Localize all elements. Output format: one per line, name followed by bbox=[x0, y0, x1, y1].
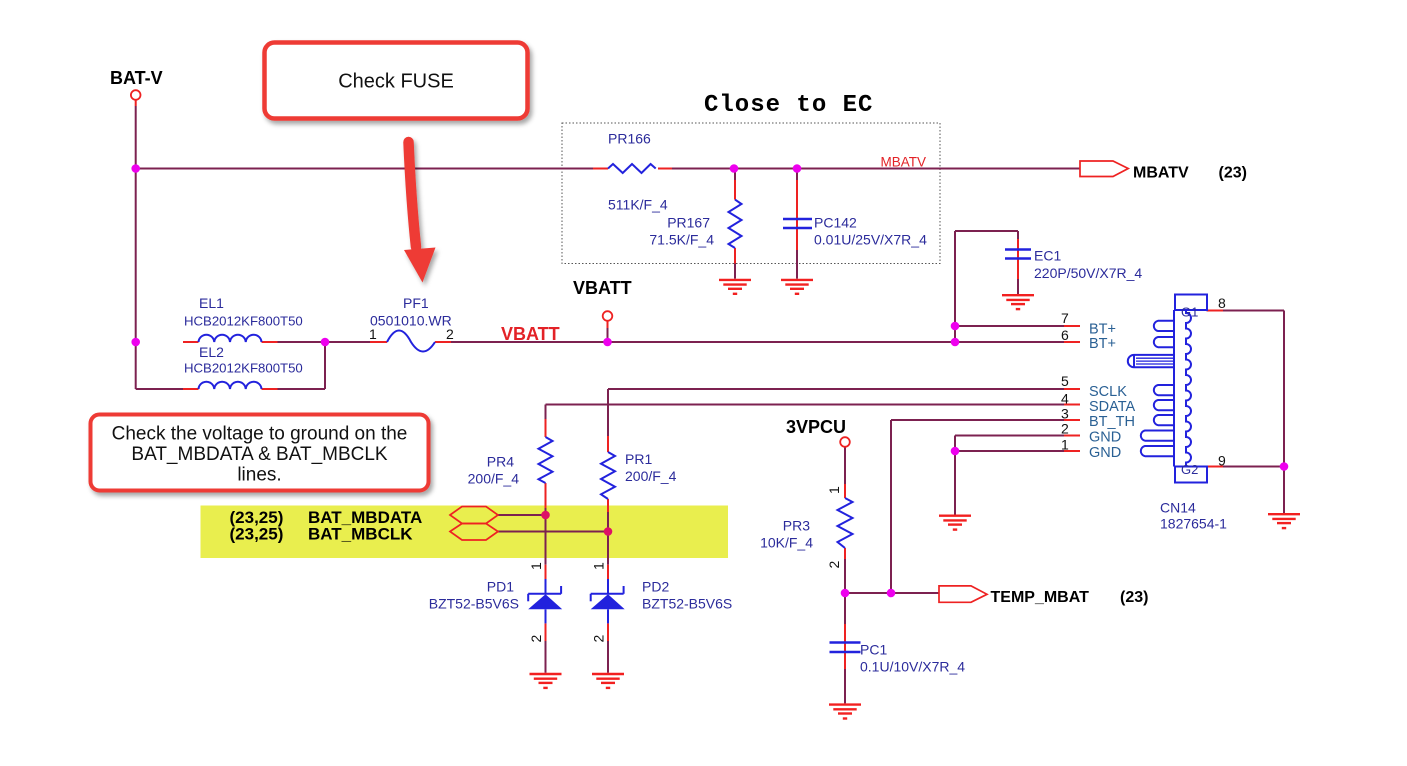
svg-text:2: 2 bbox=[528, 635, 544, 643]
svg-text:71.5K/F_4: 71.5K/F_4 bbox=[649, 232, 714, 248]
svg-text:BAT_MBCLK: BAT_MBCLK bbox=[308, 525, 413, 544]
svg-text:G1: G1 bbox=[1181, 305, 1198, 320]
svg-text:PR4: PR4 bbox=[487, 454, 514, 470]
svg-text:BT_TH: BT_TH bbox=[1089, 414, 1135, 430]
svg-text:BAT-V: BAT-V bbox=[110, 68, 163, 88]
svg-text:(23): (23) bbox=[1219, 165, 1247, 182]
svg-text:EC1: EC1 bbox=[1034, 248, 1061, 264]
svg-text:2: 2 bbox=[826, 561, 842, 569]
svg-text:200/F_4: 200/F_4 bbox=[625, 468, 677, 484]
svg-text:lines.: lines. bbox=[237, 465, 281, 486]
svg-text:Close to EC: Close to EC bbox=[704, 92, 873, 119]
svg-text:BZT52-B5V6S: BZT52-B5V6S bbox=[429, 596, 519, 612]
svg-text:MBATV: MBATV bbox=[881, 155, 927, 170]
svg-text:220P/50V/X7R_4: 220P/50V/X7R_4 bbox=[1034, 265, 1142, 281]
svg-text:9: 9 bbox=[1218, 453, 1226, 469]
svg-text:CN14: CN14 bbox=[1160, 500, 1196, 516]
svg-text:1: 1 bbox=[591, 562, 607, 570]
svg-text:1: 1 bbox=[369, 326, 377, 342]
svg-text:BZT52-B5V6S: BZT52-B5V6S bbox=[642, 596, 732, 612]
svg-text:PR1: PR1 bbox=[625, 451, 652, 467]
svg-text:G2: G2 bbox=[1181, 462, 1198, 477]
svg-text:PC142: PC142 bbox=[814, 215, 857, 231]
svg-text:(23): (23) bbox=[1120, 589, 1148, 606]
svg-text:SCLK: SCLK bbox=[1089, 384, 1127, 400]
svg-text:BAT_MBDATA & BAT_MBCLK: BAT_MBDATA & BAT_MBCLK bbox=[131, 444, 388, 465]
svg-text:HCB2012KF800T50: HCB2012KF800T50 bbox=[184, 361, 303, 376]
svg-text:2: 2 bbox=[1061, 421, 1069, 437]
svg-text:PD1: PD1 bbox=[487, 579, 514, 595]
svg-text:EL1: EL1 bbox=[199, 295, 224, 311]
svg-text:Check FUSE: Check FUSE bbox=[338, 71, 454, 93]
svg-text:1: 1 bbox=[826, 486, 842, 494]
svg-text:PF1: PF1 bbox=[403, 295, 429, 311]
svg-text:PR3: PR3 bbox=[783, 518, 810, 534]
svg-text:4: 4 bbox=[1061, 391, 1069, 407]
svg-text:VBATT: VBATT bbox=[573, 278, 632, 298]
svg-text:1: 1 bbox=[1061, 437, 1069, 453]
svg-text:8: 8 bbox=[1218, 295, 1226, 311]
svg-text:511K/F_4: 511K/F_4 bbox=[608, 197, 668, 213]
svg-text:3VPCU: 3VPCU bbox=[786, 417, 846, 437]
svg-text:PC1: PC1 bbox=[860, 642, 887, 658]
svg-text:SDATA: SDATA bbox=[1089, 399, 1136, 415]
svg-text:3: 3 bbox=[1061, 406, 1069, 422]
svg-text:10K/F_4: 10K/F_4 bbox=[760, 535, 813, 551]
svg-text:0.1U/10V/X7R_4: 0.1U/10V/X7R_4 bbox=[860, 659, 965, 675]
svg-text:BT+: BT+ bbox=[1089, 336, 1116, 352]
svg-text:VBATT: VBATT bbox=[501, 324, 560, 344]
svg-text:2: 2 bbox=[446, 326, 454, 342]
svg-text:PD2: PD2 bbox=[642, 579, 669, 595]
svg-text:2: 2 bbox=[591, 635, 607, 643]
svg-text:GND: GND bbox=[1089, 430, 1121, 446]
svg-text:MBATV: MBATV bbox=[1133, 165, 1189, 182]
svg-text:5: 5 bbox=[1061, 373, 1069, 389]
svg-text:Check the voltage to ground on: Check the voltage to ground on the bbox=[112, 424, 408, 445]
svg-text:PR166: PR166 bbox=[608, 131, 651, 147]
svg-text:HCB2012KF800T50: HCB2012KF800T50 bbox=[184, 314, 303, 329]
svg-text:(23,25): (23,25) bbox=[230, 525, 284, 544]
svg-text:TEMP_MBAT: TEMP_MBAT bbox=[991, 589, 1090, 606]
svg-text:6: 6 bbox=[1061, 327, 1069, 343]
svg-text:PR167: PR167 bbox=[667, 215, 710, 231]
svg-text:1: 1 bbox=[528, 562, 544, 570]
svg-text:0501010.WR: 0501010.WR bbox=[370, 313, 452, 329]
svg-text:GND: GND bbox=[1089, 445, 1121, 461]
svg-text:EL2: EL2 bbox=[199, 344, 224, 360]
svg-text:0.01U/25V/X7R_4: 0.01U/25V/X7R_4 bbox=[814, 232, 927, 248]
svg-text:7: 7 bbox=[1061, 310, 1069, 326]
svg-text:1827654-1: 1827654-1 bbox=[1160, 516, 1227, 532]
svg-text:200/F_4: 200/F_4 bbox=[468, 471, 520, 487]
